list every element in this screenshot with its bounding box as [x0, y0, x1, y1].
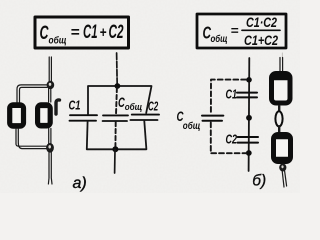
capacitor body bottom (b) [274, 135, 291, 162]
wire: dashed equivalent branch [211, 80, 246, 154]
capacitor C1 (series) [237, 93, 257, 98]
node: bottom junction blob [46, 143, 54, 153]
formula box b: Cобщ = C1·C2/(C1+C2) [197, 14, 286, 48]
wire: top double lead [49, 57, 51, 82]
svg-text:C2: C2 [226, 133, 238, 147]
wire: left capacitor bottom lead curving right [16, 129, 47, 149]
capacitor Cobshch (b) [202, 116, 223, 121]
connector oval [275, 111, 282, 126]
svg-text:C1: C1 [69, 97, 81, 112]
node: bottom blob (b) [279, 164, 286, 172]
svg-text:а): а) [73, 175, 87, 192]
wire: oval to bottom capacitor [278, 127, 280, 133]
svg-text:+: + [100, 24, 107, 41]
node: bottom junction dot [112, 146, 118, 152]
node: top junction blob [47, 81, 55, 89]
ink smudge faint line [281, 53, 283, 61]
svg-text:C2: C2 [109, 22, 124, 43]
svg-text:C2: C2 [148, 100, 158, 114]
wire: bottom double lead going down [48, 152, 52, 184]
svg-text:б): б) [252, 173, 266, 190]
svg-text:=: = [71, 24, 80, 41]
svg-text:C1: C1 [83, 22, 98, 43]
wire: bottom bus [87, 121, 147, 149]
wire: top horizontal double to left, curving down [17, 85, 47, 102]
svg-text:общ: общ [183, 120, 201, 132]
node: top junction dot [115, 83, 121, 89]
node: middle dot [246, 115, 252, 121]
capacitor Cobshch (dashed equivalent) [115, 88, 118, 115]
formula text a [40, 22, 124, 47]
svg-text:C1·C2: C1·C2 [246, 15, 277, 30]
capacitor C2 [130, 115, 159, 120]
capacitor body left [10, 105, 24, 126]
node: bottom dot [246, 150, 252, 156]
wire: bottom terminal [114, 149, 116, 173]
wire: top bus [88, 86, 152, 114]
svg-text:общ: общ [125, 102, 143, 112]
capacitor body right [38, 105, 51, 126]
wire: top terminal [116, 53, 119, 86]
wire: lead to oval [278, 106, 280, 111]
svg-text:C1+C2: C1+C2 [244, 33, 278, 48]
capacitor body top (b) [272, 74, 291, 104]
capacitor C1 [70, 115, 98, 121]
svg-text:общ: общ [49, 35, 67, 47]
svg-text:C: C [40, 23, 49, 44]
wire: bottom double lead (b) [282, 171, 286, 187]
fraction bar [242, 29, 280, 31]
svg-text:=: = [231, 23, 239, 38]
node: top dot [246, 77, 252, 83]
wire: top double lead (b) [280, 58, 283, 72]
wire: main series line [248, 58, 251, 171]
wire: right capacitor bottom lead [49, 129, 51, 145]
ink smudge artifact [56, 100, 60, 114]
wire: blob down to right capacitor [49, 89, 51, 103]
svg-text:C1: C1 [226, 87, 238, 101]
svg-text:общ: общ [211, 33, 228, 45]
formula text b [203, 15, 279, 48]
capacitor C2 (series) [238, 137, 259, 143]
formula box a: Cобщ = C1 + C2 [35, 17, 129, 48]
